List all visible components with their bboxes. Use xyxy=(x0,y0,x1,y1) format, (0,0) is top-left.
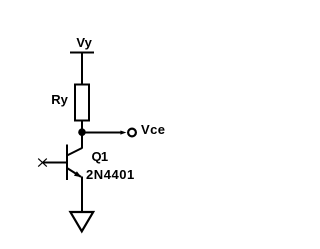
wire: resistor bottom to collector corner xyxy=(81,121,83,149)
svg-text:Vce: Vce xyxy=(141,122,165,137)
resistor Ry xyxy=(75,85,89,121)
base wire xyxy=(43,162,67,164)
svg-text:2N4401: 2N4401 xyxy=(86,167,135,182)
terminal circle Vce xyxy=(128,129,136,137)
ground symbol xyxy=(70,212,93,231)
arrowhead at Vce terminal xyxy=(120,131,126,135)
svg-text:Q1: Q1 xyxy=(92,149,108,164)
wire: Vy rail to resistor top xyxy=(81,53,83,86)
wire: node to Vce terminal xyxy=(82,132,123,134)
transistor Q1 emitter diagonal xyxy=(67,168,81,177)
transistor Q1 emitter arrowhead xyxy=(74,171,82,177)
node junction dot xyxy=(78,128,86,136)
svg-text:Vy: Vy xyxy=(76,35,92,50)
transistor Q1 base bar xyxy=(66,145,68,181)
svg-text:Ry: Ry xyxy=(51,92,68,107)
wire: emitter to ground xyxy=(81,177,83,213)
transistor Q1 collector diagonal xyxy=(67,148,82,156)
input terminal X mark xyxy=(38,159,47,167)
power supply bar (Vy rail) xyxy=(70,52,94,54)
